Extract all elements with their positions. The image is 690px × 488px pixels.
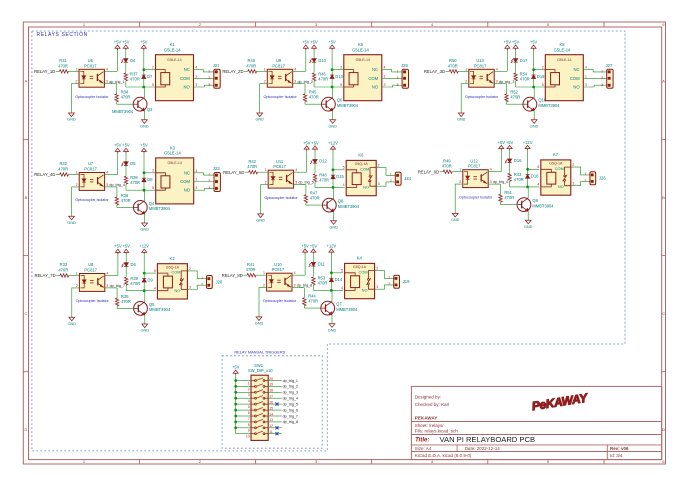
- svg-text:1: 1: [264, 67, 266, 71]
- svg-text:D18: D18: [531, 174, 539, 179]
- no-connect X: [275, 432, 278, 435]
- svg-text:+5V: +5V: [301, 243, 309, 248]
- power +12V: [328, 140, 338, 151]
- svg-text:J21: J21: [213, 63, 220, 68]
- svg-text:NC: NC: [184, 67, 190, 72]
- op-amp U12 optocoupler PC817: [463, 170, 488, 188]
- ground: [328, 324, 337, 333]
- wire: [268, 403, 282, 405]
- power +5V: [506, 140, 514, 151]
- svg-text:R50: R50: [449, 58, 457, 63]
- wire: [187, 271, 206, 279]
- svg-text:PC817: PC817: [84, 167, 97, 172]
- svg-text:dp_trig_6: dp_trig_6: [493, 180, 508, 184]
- junction: [142, 86, 145, 89]
- svg-text:GND: GND: [328, 328, 337, 332]
- svg-text:Title:: Title:: [415, 438, 429, 444]
- svg-text:MMBT3904: MMBT3904: [112, 109, 134, 114]
- svg-text:2: 2: [199, 459, 201, 464]
- wire: [194, 188, 214, 190]
- svg-text:RELAY_1D: RELAY_1D: [34, 69, 55, 74]
- wire: [382, 70, 402, 72]
- svg-text:D: D: [662, 427, 665, 432]
- svg-text:470R: 470R: [510, 95, 520, 100]
- wire: [56, 275, 60, 277]
- connector J22: [213, 166, 220, 191]
- wire: [194, 70, 214, 72]
- resistor R33: [60, 274, 69, 277]
- wire: [376, 168, 395, 176]
- svg-text:Size: A4: Size: A4: [415, 446, 432, 451]
- wire: [528, 168, 540, 170]
- svg-text:+5V: +5V: [512, 39, 520, 44]
- ground: [255, 113, 264, 122]
- svg-text:2: 2: [390, 179, 392, 183]
- wire: [268, 397, 282, 399]
- svg-text:1: 1: [397, 70, 399, 74]
- junction: [143, 171, 146, 174]
- wire: [583, 77, 606, 79]
- svg-text:+12V: +12V: [328, 140, 338, 145]
- svg-text:dp_trig_3: dp_trig_3: [499, 80, 514, 84]
- svg-text:3: 3: [208, 186, 210, 190]
- svg-text:Optocoupler Isolator: Optocoupler Isolator: [75, 198, 109, 202]
- wire: [533, 87, 535, 97]
- svg-text:+5V: +5V: [140, 39, 148, 44]
- svg-text:VAN PI RELAYBOARD PCB: VAN PI RELAYBOARD PCB: [440, 435, 536, 444]
- power +5V: [303, 140, 311, 151]
- svg-text:2: 2: [248, 387, 250, 391]
- wire: [313, 81, 315, 87]
- op-amp U6 optocoupler PC817: [79, 69, 104, 87]
- relay K2 G5Q-1A: [157, 264, 187, 299]
- svg-text:K8: K8: [559, 42, 565, 47]
- svg-text:470R: 470R: [504, 195, 514, 200]
- svg-text:Optocoupler Isolator: Optocoupler Isolator: [459, 195, 493, 199]
- svg-text:PC817: PC817: [273, 164, 286, 169]
- svg-text:G5LE-14: G5LE-14: [168, 161, 182, 165]
- resistor R48: [313, 174, 316, 182]
- svg-text:+5V: +5V: [122, 143, 130, 148]
- svg-text:3: 3: [106, 80, 108, 84]
- svg-text:470R: 470R: [318, 77, 328, 82]
- svg-text:6: 6: [662, 22, 664, 27]
- resistor R41: [247, 274, 256, 277]
- svg-text:Q7: Q7: [336, 302, 342, 307]
- svg-text:4: 4: [341, 286, 343, 290]
- svg-text:4: 4: [537, 183, 539, 187]
- transistor Q8 MMBT3904: [322, 198, 336, 212]
- svg-text:PEKAWAY: PEKAWAY: [415, 416, 438, 421]
- svg-text:1: 1: [585, 74, 587, 78]
- svg-text:U12: U12: [470, 158, 478, 163]
- resistor R44: [303, 298, 306, 306]
- wire: [144, 272, 156, 274]
- svg-text:+5V: +5V: [232, 364, 240, 369]
- svg-text:2: 2: [265, 181, 267, 185]
- junction: [332, 168, 335, 171]
- svg-text:Optocoupler Isolator: Optocoupler Isolator: [75, 95, 109, 99]
- svg-text:D16: D16: [514, 158, 522, 163]
- wire: [332, 111, 334, 120]
- svg-text:+5V: +5V: [303, 140, 311, 145]
- svg-text:MMBT3904: MMBT3904: [149, 307, 171, 312]
- transistor Q9 MMBT3904: [517, 198, 531, 212]
- junction: [526, 186, 529, 189]
- svg-text:J20: J20: [216, 280, 223, 285]
- svg-text:U7: U7: [88, 161, 94, 166]
- resistor R50: [449, 70, 458, 73]
- svg-text:2: 2: [459, 180, 461, 184]
- wire: [143, 153, 145, 173]
- svg-text:U10: U10: [274, 262, 282, 267]
- op-amp U9 optocoupler PC817: [267, 69, 292, 87]
- junction: [331, 86, 334, 89]
- resistor R53: [312, 277, 315, 285]
- svg-text:D14: D14: [335, 277, 343, 282]
- relay K7 G5Q-1A: [541, 160, 571, 195]
- svg-text:470R: 470R: [520, 77, 530, 82]
- wire: [452, 171, 463, 173]
- power +5V: [310, 243, 318, 254]
- svg-text:4: 4: [490, 168, 492, 172]
- svg-text:2: 2: [76, 183, 78, 187]
- svg-text:GND: GND: [68, 322, 77, 326]
- svg-text:R41: R41: [247, 262, 255, 267]
- svg-text:RELAYS SECTION: RELAYS SECTION: [37, 32, 88, 38]
- svg-text:2: 2: [388, 282, 390, 286]
- svg-text:1: 1: [263, 271, 265, 275]
- wire: [144, 191, 146, 201]
- svg-text:D13: D13: [335, 74, 343, 79]
- relay K3 G5LE-14: [156, 158, 194, 204]
- svg-text:470R: 470R: [246, 267, 256, 272]
- resistor R39: [125, 277, 128, 285]
- svg-text:+12V: +12V: [327, 243, 337, 248]
- svg-text:5: 5: [542, 83, 544, 87]
- svg-text:dp_trig_8: dp_trig_8: [297, 284, 312, 288]
- svg-text:J19: J19: [403, 279, 410, 284]
- wire: [375, 271, 394, 279]
- svg-text:470R: 470R: [309, 95, 319, 100]
- svg-text:R49: R49: [443, 158, 451, 163]
- wire: [382, 77, 402, 79]
- svg-text:MMBT3904: MMBT3904: [149, 206, 171, 211]
- svg-text:3: 3: [572, 182, 574, 186]
- svg-text:5: 5: [537, 165, 539, 169]
- wire: [488, 171, 501, 173]
- svg-text:2: 2: [208, 76, 210, 80]
- svg-text:U8: U8: [88, 262, 94, 267]
- svg-text:dp_trig_7: dp_trig_7: [283, 414, 298, 418]
- wire: [143, 111, 145, 120]
- svg-text:dp_trig_1: dp_trig_1: [109, 80, 124, 84]
- svg-text:GND: GND: [140, 228, 149, 232]
- svg-text:3: 3: [490, 180, 492, 184]
- junction: [234, 409, 237, 412]
- svg-text:COM: COM: [180, 179, 190, 184]
- power +5V: [122, 39, 130, 50]
- svg-text:4: 4: [106, 67, 108, 71]
- svg-text:C: C: [662, 311, 665, 316]
- op-amp U8 optocoupler PC817: [79, 274, 104, 292]
- wire: [332, 69, 344, 71]
- svg-text:10: 10: [246, 435, 250, 439]
- svg-text:NO: NO: [558, 184, 564, 189]
- LED D4: [121, 58, 136, 63]
- svg-text:R32: R32: [59, 161, 67, 166]
- svg-text:+5V: +5V: [311, 140, 319, 145]
- svg-text:K5: K5: [358, 42, 364, 47]
- svg-text:PC817: PC817: [468, 164, 481, 169]
- svg-text:K6: K6: [358, 153, 364, 158]
- ground: [451, 213, 460, 222]
- svg-text:470R: 470R: [310, 196, 320, 201]
- relay K6 G5Q-1A: [346, 160, 376, 195]
- wire: [125, 50, 127, 59]
- wire: [509, 150, 511, 159]
- svg-text:K7: K7: [553, 152, 559, 157]
- svg-text:4: 4: [496, 67, 498, 71]
- svg-text:2: 2: [340, 65, 342, 69]
- svg-text:dp_trig_2: dp_trig_2: [298, 80, 313, 84]
- svg-text:2: 2: [542, 65, 544, 69]
- svg-text:1: 1: [208, 70, 210, 74]
- wire: [314, 182, 316, 188]
- svg-text:B: B: [662, 195, 665, 200]
- svg-text:1: 1: [459, 168, 461, 172]
- svg-text:3: 3: [248, 393, 250, 397]
- svg-text:1: 1: [76, 171, 78, 175]
- svg-text:GND: GND: [457, 118, 466, 122]
- diode D7: [142, 74, 153, 79]
- svg-text:D: D: [24, 427, 27, 432]
- svg-text:4: 4: [585, 66, 587, 70]
- wire: [104, 70, 117, 72]
- svg-text:7: 7: [248, 417, 250, 421]
- wire: [257, 70, 268, 72]
- svg-text:2: 2: [264, 80, 266, 84]
- svg-text:+5V: +5V: [114, 143, 122, 148]
- svg-text:1: 1: [265, 168, 267, 172]
- wire: [494, 70, 507, 72]
- ground: [67, 113, 76, 122]
- op-amp U11 optocoupler PC817: [268, 170, 293, 188]
- svg-text:3: 3: [195, 83, 197, 87]
- wire: [458, 70, 469, 72]
- wire: [144, 214, 146, 223]
- resistor R51: [499, 194, 502, 202]
- diode D9: [142, 278, 153, 283]
- power +5V: [114, 244, 122, 255]
- svg-text:Optocoupler Isolator: Optocoupler Isolator: [263, 95, 297, 99]
- svg-text:4: 4: [195, 66, 197, 70]
- wire: [144, 315, 146, 324]
- wire: [268, 391, 282, 393]
- svg-text:dp_trig_4: dp_trig_4: [283, 397, 298, 401]
- svg-text:3: 3: [496, 80, 498, 84]
- wire: [116, 205, 118, 207]
- power +5V: [302, 39, 310, 50]
- svg-text:1: 1: [83, 22, 85, 27]
- power +5V: [301, 243, 309, 254]
- svg-text:K3: K3: [170, 145, 176, 150]
- svg-text:2: 2: [601, 76, 603, 80]
- svg-text:G5LE-14: G5LE-14: [557, 58, 571, 62]
- wire: [268, 433, 282, 435]
- wire: [260, 84, 268, 113]
- wire: [125, 165, 127, 175]
- power +5V: [504, 39, 512, 50]
- svg-text:K2: K2: [170, 256, 176, 261]
- relay K4 G5Q-1A: [345, 263, 375, 298]
- wire: [331, 291, 333, 302]
- wire SW1 pin 8: [236, 421, 251, 423]
- resistor R37: [124, 73, 127, 81]
- svg-text:PC817: PC817: [84, 268, 97, 273]
- resistor R52: [505, 94, 508, 102]
- op-amp U10 optocoupler PC817: [267, 273, 292, 291]
- svg-text:PC817: PC817: [84, 63, 97, 68]
- resistor R45: [303, 94, 306, 102]
- svg-text:J26: J26: [599, 176, 606, 181]
- svg-text:2: 2: [263, 284, 265, 288]
- resistor R34: [115, 94, 118, 102]
- junction: [331, 68, 334, 71]
- wire: [509, 181, 511, 187]
- wire: [245, 171, 249, 173]
- ground: [140, 223, 149, 232]
- svg-text:470R: 470R: [442, 164, 452, 169]
- connector J26: [590, 172, 606, 185]
- svg-text:8: 8: [248, 423, 250, 427]
- junction: [532, 86, 535, 89]
- title block outline: [411, 386, 661, 459]
- svg-text:3: 3: [208, 83, 210, 87]
- svg-text:1: 1: [384, 74, 386, 78]
- relay K5 G5LE-14: [344, 55, 382, 101]
- wire: [382, 85, 402, 87]
- connector J24: [395, 172, 411, 185]
- svg-text:NO: NO: [372, 85, 379, 90]
- svg-text:D4: D4: [130, 58, 136, 63]
- svg-text:GND: GND: [256, 219, 265, 223]
- wire: [527, 187, 529, 198]
- svg-text:MMBT3904: MMBT3904: [336, 307, 358, 312]
- wire: [488, 183, 500, 185]
- wire: [69, 174, 80, 176]
- wire: [143, 50, 145, 70]
- svg-text:D12: D12: [319, 159, 327, 164]
- ground: [457, 113, 466, 122]
- svg-text:4: 4: [384, 66, 386, 70]
- svg-text:2: 2: [199, 22, 201, 27]
- ground: [524, 220, 533, 229]
- wire: [116, 306, 118, 308]
- svg-text:2: 2: [201, 282, 203, 286]
- wire: [571, 167, 590, 175]
- wire: [294, 184, 306, 186]
- wire SW1 pin 5: [236, 403, 251, 405]
- connector J19: [394, 275, 410, 288]
- wire: [144, 291, 146, 302]
- wire SW1 pin 2: [236, 385, 251, 387]
- wire: [268, 415, 282, 417]
- svg-text:3: 3: [106, 284, 108, 288]
- wire +5V bus: [235, 375, 237, 434]
- wire SW1 pin 10: [236, 433, 251, 435]
- wire: [144, 69, 156, 71]
- node RELAY MANUAL TRIGGERS boundary: [222, 356, 322, 448]
- wire: [331, 50, 333, 70]
- LED D11: [309, 262, 326, 267]
- svg-text:4: 4: [195, 169, 197, 173]
- svg-text:+5V: +5V: [504, 39, 512, 44]
- svg-text:GND: GND: [67, 118, 76, 122]
- svg-text:PC817: PC817: [474, 63, 487, 68]
- junction: [332, 186, 335, 189]
- svg-text:MMBT3904: MMBT3904: [538, 103, 560, 108]
- svg-text:5: 5: [152, 83, 154, 87]
- LED D17: [511, 58, 528, 63]
- wire: [314, 163, 316, 173]
- svg-text:470R: 470R: [308, 299, 318, 304]
- wire: [259, 288, 267, 317]
- svg-text:3: 3: [376, 285, 378, 289]
- resistor R32: [60, 173, 69, 176]
- svg-text:D15: D15: [336, 174, 344, 179]
- svg-text:2: 2: [572, 163, 574, 167]
- svg-text:3: 3: [601, 83, 603, 87]
- junction: [532, 68, 535, 71]
- wire: [194, 77, 214, 79]
- junction: [330, 271, 333, 274]
- transistor Q7 MMBT3904: [321, 301, 335, 315]
- svg-text:4: 4: [106, 272, 108, 276]
- wire: [194, 173, 214, 175]
- wire: [125, 254, 127, 263]
- svg-text:+5V: +5V: [328, 39, 336, 44]
- svg-text:File: relays.kicad_sch: File: relays.kicad_sch: [415, 429, 459, 434]
- wire: [515, 81, 517, 87]
- ground: [328, 120, 337, 129]
- svg-text:3: 3: [384, 83, 386, 87]
- LED D16: [505, 158, 522, 163]
- svg-text:4: 4: [295, 168, 297, 172]
- svg-text:2: 2: [465, 80, 467, 84]
- svg-text:3: 3: [294, 80, 296, 84]
- wire: [194, 181, 214, 183]
- svg-text:1: 1: [76, 272, 78, 276]
- svg-text:Q6: Q6: [337, 98, 343, 103]
- svg-text:+5V: +5V: [530, 39, 538, 44]
- svg-text:+5V: +5V: [498, 140, 506, 145]
- svg-text:5: 5: [547, 22, 549, 27]
- wire: [571, 181, 590, 185]
- svg-text:GND: GND: [255, 118, 264, 122]
- svg-text:K1: K1: [170, 42, 176, 47]
- wire: [332, 151, 334, 170]
- svg-text:NO: NO: [362, 288, 368, 293]
- junction: [234, 379, 237, 382]
- transistor Q10 MMBT3904: [523, 97, 537, 111]
- svg-text:470R: 470R: [59, 268, 69, 273]
- svg-text:dp_trig_8: dp_trig_8: [283, 420, 298, 424]
- svg-text:1: 1: [390, 173, 392, 177]
- svg-text:Q3: Q3: [147, 107, 153, 112]
- junction: [234, 397, 237, 400]
- svg-text:Date: 2022-12-14: Date: 2022-12-14: [465, 446, 501, 451]
